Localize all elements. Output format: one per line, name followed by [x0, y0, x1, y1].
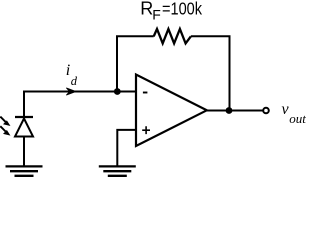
svg-text:i: i	[66, 62, 70, 79]
photodiode D1 triangle	[15, 119, 33, 137]
node: junction dot at inverting input	[114, 88, 121, 95]
wire: feedback right lead and vertical	[191, 36, 230, 110]
op-amp minus sign	[143, 92, 148, 94]
svg-text:out: out	[289, 111, 306, 126]
ground: under photodiode	[6, 166, 43, 175]
terminal: open circle output	[263, 108, 269, 114]
resistor RF zigzag	[154, 29, 191, 43]
svg-text:v: v	[282, 101, 290, 118]
wire: op-amp output	[207, 110, 263, 112]
wire: photodiode to ground	[23, 137, 25, 167]
light arrow 1 into photodiode	[0, 117, 5, 122]
op-amp plus sign	[142, 126, 150, 134]
photodiode D1 cathode bar	[15, 116, 33, 118]
light arrow 2 into photodiode	[0, 126, 5, 131]
op-amp U1 triangle	[136, 75, 207, 147]
ground: under non-inverting input	[99, 166, 136, 175]
wire: photodiode top wire to op-amp inverting input	[24, 92, 136, 118]
wire: non-inverting input to ground	[117, 130, 136, 166]
current arrow i_d on wire	[66, 88, 76, 95]
node: output junction dot	[226, 107, 233, 114]
svg-text:=100k: =100k	[162, 0, 202, 19]
svg-text:F: F	[152, 7, 161, 23]
wire: feedback left vertical	[117, 36, 154, 91]
svg-text:d: d	[71, 74, 78, 88]
